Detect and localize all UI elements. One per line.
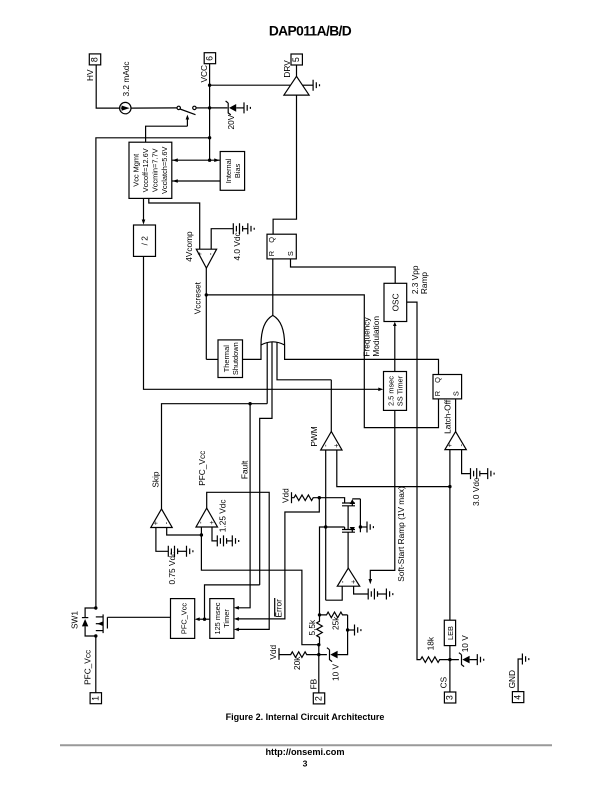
comparator Latch-Off <box>445 432 466 450</box>
svg-text:Figure 2. Internal Circuit Arc: Figure 2. Internal Circuit Architecture <box>226 712 385 722</box>
svg-text:20k: 20k <box>292 656 302 670</box>
wire error amp plus to battery <box>354 586 368 594</box>
box 125 msec Timer <box>210 599 234 639</box>
svg-text:Latch-Off: Latch-Off <box>442 399 452 434</box>
label 2.3 Vpp Ramp <box>410 265 429 294</box>
wire Vccreset to latch-off R <box>206 295 438 428</box>
svg-text:Vccreset: Vccreset <box>192 281 202 314</box>
comparator 4Vcomp <box>195 249 216 268</box>
wire OSC ramp output to 18k <box>407 302 421 659</box>
box Vcc Mgmt <box>129 142 172 198</box>
svg-text:18k: 18k <box>425 636 435 650</box>
node FB pin <box>317 653 320 656</box>
pin 8 (HV) <box>89 54 100 65</box>
svg-text:DAP011A/B/D: DAP011A/B/D <box>269 24 352 39</box>
pin 6 (VCC) <box>204 53 215 64</box>
label HV <box>85 69 95 81</box>
pin 4 <box>512 692 523 703</box>
box Internal Bias <box>220 152 244 191</box>
wire VCC vertical rail <box>209 64 211 161</box>
wire OR input2 from skip net <box>266 342 268 404</box>
wire thermal shutdown to OR gate <box>243 345 262 359</box>
battery 1.25 Vdc <box>217 535 232 546</box>
label DRV <box>282 60 292 78</box>
page number 3 <box>303 758 308 768</box>
box PFC_Vcc driver <box>171 599 195 639</box>
label 1.25 Vdc <box>218 499 228 532</box>
box /2 divider <box>134 225 156 256</box>
pin 2 <box>313 693 324 704</box>
svg-text:DRV: DRV <box>282 60 292 78</box>
node 25k ground <box>346 628 354 631</box>
svg-text:Thermal: Thermal <box>222 345 231 372</box>
label SW1 <box>69 611 79 629</box>
ground at DRV <box>313 80 319 91</box>
label VCC <box>199 65 209 83</box>
svg-text:10 V: 10 V <box>460 635 470 653</box>
svg-text:VCC: VCC <box>199 65 209 83</box>
op-amp error amplifier <box>337 568 359 586</box>
wire HV pin to current source <box>96 65 119 108</box>
wire Skip output to OR net <box>162 404 268 509</box>
node FB sense <box>200 533 203 536</box>
svg-text:8: 8 <box>90 57 100 62</box>
wire timer to PFC driver arrow <box>195 617 210 621</box>
svg-text:Q: Q <box>267 237 276 243</box>
ground at 1.25 Vdc <box>232 535 238 546</box>
title DAP011A/B/D <box>269 24 352 39</box>
svg-text:FB: FB <box>308 678 318 689</box>
wire latch2 S from comparator <box>455 399 457 432</box>
svg-text:20V: 20V <box>226 114 236 129</box>
svg-text:Vcc Mgmt: Vcc Mgmt <box>131 154 140 187</box>
pin 1 <box>90 693 101 704</box>
label 3.2 mAdc <box>121 61 131 96</box>
svg-text:Modulation: Modulation <box>371 316 381 357</box>
label PWM <box>309 426 319 446</box>
wire latch1 S from OSC <box>291 259 396 283</box>
resistor 20k <box>279 652 319 658</box>
svg-text:+: + <box>207 521 216 525</box>
wire latch1 R from OR gate <box>272 259 274 316</box>
switch control arrow <box>146 115 190 143</box>
wire PWM output to OR <box>330 380 332 432</box>
wire FB sense down to divider <box>201 535 318 645</box>
supply Vdd upper bar <box>291 492 293 503</box>
supply Vdd lower bar <box>278 648 280 660</box>
label 0.75 Vdc <box>167 552 177 585</box>
switch startup <box>177 106 196 114</box>
svg-text:/ 2: / 2 <box>139 236 149 246</box>
svg-text:5,5k: 5,5k <box>307 619 317 636</box>
svg-text:2.5 msec: 2.5 msec <box>386 376 395 406</box>
node VCC-leftrail <box>208 136 211 139</box>
node skip fault branch <box>248 402 251 405</box>
battery 4.0 Vdc <box>233 223 247 234</box>
node latch-off plus PWM plus <box>448 485 451 488</box>
svg-text:S: S <box>452 391 461 396</box>
box OSC <box>384 283 407 321</box>
node Vccreset <box>205 293 208 296</box>
svg-text:0.75 Vdc: 0.75 Vdc <box>167 552 177 585</box>
node VCC-DRV <box>208 84 211 87</box>
transistor Q2 lower clamp <box>342 527 360 532</box>
svg-text:+: + <box>195 252 204 256</box>
svg-text:OSC: OSC <box>391 293 401 311</box>
wire VCC to DRV supply <box>210 84 291 86</box>
label PFC_Vcc comparator <box>197 451 207 486</box>
wire LEB to CS node <box>449 646 451 660</box>
wire zener branch <box>210 107 228 109</box>
label 10 V at CS <box>460 635 470 653</box>
label PFC_Vcc net <box>83 650 93 685</box>
battery error reference <box>368 589 386 600</box>
label Latch-Off <box>442 399 452 434</box>
label Error (overline) <box>274 598 284 618</box>
node ramp clamp gate <box>318 496 321 499</box>
label 20V <box>226 114 236 129</box>
wire freq mod arrow into OSC <box>393 322 397 372</box>
wire comp node to error amp minus <box>326 586 343 600</box>
svg-text:PFC_Vcc: PFC_Vcc <box>179 603 188 635</box>
label Frequency Modulation <box>361 316 381 357</box>
svg-text:4Vcomp: 4Vcomp <box>184 231 194 262</box>
svg-text:Q: Q <box>433 377 442 383</box>
svg-text:Timer: Timer <box>222 609 231 628</box>
svg-text:PFC_Vcc: PFC_Vcc <box>197 451 207 486</box>
svg-text:HV: HV <box>85 69 95 81</box>
wire lower FET gate <box>326 526 345 528</box>
svg-text:Skip: Skip <box>150 471 160 488</box>
label Soft-Start Ramp <box>396 486 406 582</box>
svg-text:Vdd: Vdd <box>280 488 290 503</box>
node divider bottom <box>317 643 320 646</box>
gate OR <box>261 315 285 345</box>
wire PFC output to 125ms timer <box>207 492 270 631</box>
svg-text:Fault: Fault <box>239 460 249 479</box>
svg-text:http://onsemi.com: http://onsemi.com <box>265 747 344 757</box>
wire VccMgmt to 4Vcomp <box>149 198 200 249</box>
ground at divider <box>355 625 361 636</box>
wire OR input5 from latch2 Q <box>285 345 439 375</box>
comparator PWM <box>321 432 342 451</box>
svg-text:PFC_Vcc: PFC_Vcc <box>83 650 93 685</box>
svg-text:Frequency: Frequency <box>361 317 371 357</box>
wire series FETs <box>347 506 349 530</box>
wire Skip plus to battery <box>156 528 168 552</box>
svg-text:Ramp: Ramp <box>419 272 429 295</box>
wire comp node to FB divider top <box>320 527 326 615</box>
svg-text:+: + <box>349 580 358 584</box>
footer url <box>265 747 344 757</box>
label Vdd upper <box>280 488 290 503</box>
wire left rail from VCC <box>96 138 210 608</box>
node VCC-bias <box>208 159 211 162</box>
comparator Skip <box>151 509 172 528</box>
label 4Vcomp <box>184 231 194 262</box>
svg-text:5: 5 <box>291 57 301 62</box>
transistor SW1 <box>82 606 108 637</box>
svg-text:Bias: Bias <box>233 163 242 178</box>
wire fault net down to 125ms timer <box>234 404 250 610</box>
wire timer net to OR input3 <box>205 585 260 619</box>
footer rule <box>60 744 552 746</box>
wire error net from pull-up <box>234 498 319 621</box>
svg-text:CS: CS <box>439 676 449 688</box>
caption Figure 2 <box>226 712 385 722</box>
wire Vccreset output <box>205 268 207 359</box>
wire bias arrow line 2 <box>172 179 220 183</box>
label Vdd lower <box>268 644 278 659</box>
wire OR input3 jog <box>260 342 272 585</box>
battery 3.0 Vdc <box>471 468 488 479</box>
resistor 18k <box>421 657 451 663</box>
svg-text:4.0 Vdc: 4.0 Vdc <box>232 232 242 260</box>
svg-text:+: + <box>445 443 454 447</box>
wire 4Vcomp minus to battery <box>211 229 233 250</box>
ground at CS zener <box>477 654 483 665</box>
svg-text:R: R <box>433 391 442 396</box>
ground at FET source <box>367 522 373 533</box>
wire Skip minus to FB node <box>167 528 202 536</box>
wire PFC plus to battery <box>212 527 217 541</box>
label Vccreset <box>192 281 202 314</box>
svg-text:Vdd: Vdd <box>268 644 278 659</box>
wire SW1 gate to PFC_Vcc box <box>107 616 170 618</box>
svg-text:125 msec: 125 msec <box>213 602 222 634</box>
ground at 4.0 Vdc <box>248 223 254 234</box>
wire thermal shutdown left <box>206 358 218 360</box>
svg-text:SS Timer: SS Timer <box>395 375 404 406</box>
wire PFC minus input stub <box>200 527 202 535</box>
wire /2 output long net to SS timer <box>144 256 384 391</box>
resistor Vdd pull-up <box>292 495 320 501</box>
svg-text:SW1: SW1 <box>69 611 79 629</box>
zener 10V at CS <box>450 653 477 667</box>
label 18k <box>425 636 435 650</box>
ground at GND pin <box>522 654 528 665</box>
svg-text:Vccmin=7.7V: Vccmin=7.7V <box>151 148 160 192</box>
ground at error reference <box>386 589 392 600</box>
svg-text:Internal: Internal <box>224 158 233 183</box>
wire VccMgmt to /2 arrow <box>142 198 146 224</box>
svg-text:1.25 Vdc: 1.25 Vdc <box>218 499 228 532</box>
wire SW1 source to pin1 <box>95 636 97 693</box>
wire PWM plus to CS net <box>337 450 450 487</box>
node VCC-zener <box>208 106 211 109</box>
svg-text:10 V: 10 V <box>330 663 340 681</box>
wire SS timer to soft-start battery <box>369 410 395 584</box>
svg-text:2: 2 <box>314 696 324 701</box>
svg-text:4: 4 <box>513 695 523 700</box>
node CS <box>448 658 451 661</box>
node FET source ground <box>359 525 367 528</box>
svg-text:+: + <box>151 521 160 525</box>
svg-text:+: + <box>332 444 341 448</box>
label GND <box>507 670 517 688</box>
svg-text:Vccoff=12.6V: Vccoff=12.6V <box>141 148 150 192</box>
ground at 3.0 Vdc <box>488 468 494 479</box>
latch RS2 latch-off <box>433 375 462 399</box>
wire divider to FB node <box>318 645 320 693</box>
wire GND pin <box>518 659 522 692</box>
wire FET node down to error amp output <box>347 532 349 568</box>
label 25k <box>331 616 341 630</box>
wire current source to switch <box>131 107 177 109</box>
box Thermal Shutdown <box>218 340 243 378</box>
wire CS to pin3 <box>449 660 451 692</box>
transistor Q1 upper clamp <box>342 499 360 527</box>
svg-text:3.2 mAdc: 3.2 mAdc <box>121 61 131 96</box>
pin 5 (DRV) <box>291 54 302 65</box>
label 3.0 Vdc <box>471 478 481 506</box>
svg-text:PWM: PWM <box>309 426 319 446</box>
wire bias arrow line 1 <box>172 158 220 162</box>
wire switch to VCC rail <box>196 107 210 109</box>
wire 25k to ground node <box>347 615 349 630</box>
wire OR input4 from PWM <box>277 342 331 380</box>
svg-text:Shutdown: Shutdown <box>231 342 240 375</box>
zener 20V <box>226 101 244 115</box>
box 2.5 msec SS Timer <box>384 372 407 411</box>
svg-text:25k: 25k <box>331 616 341 630</box>
wire DRV right to ground <box>303 84 313 86</box>
svg-text:LEB: LEB <box>446 626 455 640</box>
ground at 20V zener <box>244 102 250 113</box>
wire latch-off plus input to LEB <box>449 450 451 621</box>
resistor 25k <box>320 612 348 618</box>
label Fault <box>239 460 249 479</box>
node divider top <box>318 613 321 616</box>
label 5,5k <box>307 619 317 636</box>
node compensation <box>324 525 327 528</box>
wire pin5 to DRV buffer <box>296 65 298 76</box>
svg-text:3: 3 <box>445 695 455 700</box>
box LEB <box>444 620 455 645</box>
svg-text:Soft-Start Ramp (1V max): Soft-Start Ramp (1V max) <box>396 486 406 582</box>
current source 3.2 mAdc <box>120 102 131 113</box>
label Skip <box>150 471 160 488</box>
buffer DRV <box>284 76 309 95</box>
svg-text:S: S <box>286 251 295 256</box>
node timer-PFC net <box>203 618 206 621</box>
svg-text:6: 6 <box>204 56 214 61</box>
label 10 V at FB <box>330 663 340 681</box>
svg-text:3.0 Vdc: 3.0 Vdc <box>471 478 481 506</box>
label FB <box>308 678 318 689</box>
wire latch-off minus to battery <box>462 450 471 474</box>
pin 3 <box>444 692 455 703</box>
wire PWM minus down <box>325 450 327 600</box>
comparator PFC_Vcc <box>196 508 218 527</box>
battery 0.75 Vdc <box>168 546 186 557</box>
ground at 0.75 Vdc <box>187 546 193 557</box>
zener 10V at FB <box>319 630 348 662</box>
svg-text:Vcclatch=5.6V: Vcclatch=5.6V <box>160 147 169 195</box>
resistor 5,5k <box>317 615 323 645</box>
svg-text:3: 3 <box>303 758 308 768</box>
label 20k <box>292 656 302 670</box>
wire DRV input from latch Q <box>273 95 296 234</box>
latch RS1 <box>267 234 296 259</box>
svg-text:R: R <box>267 251 276 256</box>
svg-text:GND: GND <box>507 670 517 688</box>
wire pull-up node to upper FET gate <box>319 498 344 503</box>
svg-text:1: 1 <box>90 696 100 701</box>
label CS <box>439 676 449 688</box>
label 4.0 Vdc <box>232 232 242 260</box>
